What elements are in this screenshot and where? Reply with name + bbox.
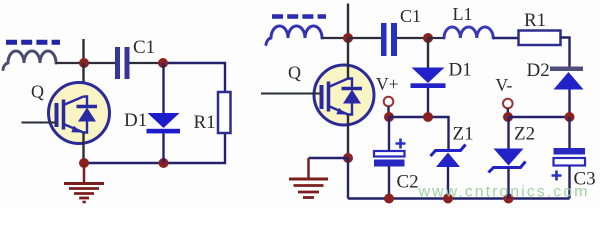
svg-text:D2: D2: [527, 60, 550, 81]
label C2: [397, 171, 419, 192]
wire C3 to rail: [568, 166, 570, 199]
wire gate of Q (left): [22, 122, 57, 124]
svg-text:D1: D1: [449, 59, 472, 80]
diode D1 (left): [147, 113, 181, 133]
svg-text:R1: R1: [524, 10, 546, 31]
label Z1: [453, 124, 474, 145]
wire bottom rail (right circuit): [348, 197, 570, 199]
label Z2: [514, 124, 535, 145]
capacitor C3: [552, 148, 586, 181]
svg-text:Q: Q: [31, 82, 44, 102]
wire V- terminal to node N: [507, 108, 509, 117]
ground (left): [64, 163, 104, 202]
label V+: [376, 74, 399, 94]
label C3: [574, 168, 596, 189]
wire bottom rail (left circuit): [84, 133, 225, 163]
transistor Q (IGBT, left): [49, 83, 110, 144]
node C junction dot: [79, 158, 89, 168]
node B junction dot: [158, 58, 168, 68]
node H junction dot: [565, 112, 575, 122]
node A junction dot: [79, 58, 89, 68]
wire emitter of Q down to node G: [347, 115, 349, 159]
terminal V+: [384, 97, 394, 107]
inductor (right input coil): [266, 26, 322, 45]
wire cathode of D1 to node J: [427, 88, 429, 117]
wire V+ terminal to node I: [387, 106, 389, 117]
svg-text:www.cntronics.com: www.cntronics.com: [418, 184, 590, 201]
wire Z2 anode to rail: [507, 168, 509, 199]
svg-text:R1: R1: [194, 112, 216, 133]
wire C2 to rail: [388, 167, 390, 199]
label R1 (left): [194, 112, 216, 133]
wire node N to node H: [508, 116, 570, 118]
label L1: [453, 4, 473, 24]
wire gate of Q (right): [261, 93, 322, 95]
wire C1 to node F: [397, 37, 428, 39]
wire node I down to C2: [388, 117, 390, 151]
wire inductor to node E: [322, 37, 348, 39]
node K junction dot (C2 at rail): [384, 194, 394, 204]
label C1 (right): [400, 6, 421, 26]
diode D2: [550, 67, 584, 90]
watermark: [418, 184, 590, 201]
wire node H down to C3: [568, 117, 570, 148]
capacitor C2: [374, 139, 406, 167]
wire node N down to Z2: [507, 117, 509, 149]
inductor L (left input coil): [3, 51, 56, 70]
inductor L1: [444, 27, 493, 38]
wire inductor to node A: [56, 62, 84, 64]
wire node A to capacitor C1: [84, 62, 115, 64]
svg-text:Z2: Z2: [514, 124, 535, 145]
wire emitter of Q down to node C: [82, 133, 84, 164]
resistor R1 (left): [218, 92, 231, 133]
svg-text:Q: Q: [288, 63, 301, 83]
node M junction dot (Z2 at rail): [504, 194, 514, 204]
wire stub above node A: [82, 39, 84, 63]
capacitor C1 (right): [381, 23, 397, 56]
label R1 (right): [524, 10, 546, 31]
label D2: [527, 60, 550, 81]
node L junction dot (Z1 at rail): [443, 194, 453, 204]
wire anode of D1 (left): [162, 63, 164, 113]
wire C1 to node B: [130, 62, 164, 64]
capacitor C1 (left): [115, 47, 130, 79]
zener Z1: [431, 145, 466, 168]
svg-text:D1: D1: [124, 110, 147, 131]
node I junction dot: [384, 112, 394, 122]
svg-text:Z1: Z1: [453, 124, 474, 145]
node D junction dot: [159, 158, 169, 168]
wire D2 anode down to node H: [568, 90, 570, 118]
label C1 (left): [133, 37, 155, 58]
wire Z1 anode to rail: [447, 167, 449, 199]
svg-text:V+: V+: [376, 74, 399, 94]
svg-text:C2: C2: [397, 171, 419, 192]
label Q (left): [31, 82, 44, 102]
terminal V-: [503, 99, 513, 109]
label Q (right): [288, 63, 301, 83]
svg-text:V-: V-: [496, 75, 513, 95]
wire node G down to bottom rail: [347, 158, 349, 199]
wire collector of Q1: [82, 63, 84, 97]
node E junction dot: [343, 33, 353, 43]
wire cathode of D1 to rail: [162, 133, 164, 163]
inductor core dashed line (left): [6, 40, 60, 45]
wire node B right and down to R1: [163, 63, 225, 92]
inductor core dashed line (right): [272, 14, 326, 19]
diode D1 (right): [411, 68, 446, 89]
label D1 (right): [449, 59, 472, 80]
wire node F to inductor L1: [428, 37, 444, 39]
label D1 (left): [124, 110, 147, 131]
svg-text:C1: C1: [400, 6, 421, 26]
node G junction dot: [343, 153, 353, 163]
zener Z2: [489, 149, 526, 173]
svg-text:L1: L1: [453, 4, 473, 24]
wire node G to ground (right): [309, 157, 349, 159]
wire stub above node E: [347, 4, 349, 39]
wire node I to Z1: [389, 117, 449, 151]
wire L1 to R1 (right): [493, 37, 518, 39]
svg-text:C1: C1: [133, 37, 155, 58]
ground (right): [289, 158, 328, 198]
wire node E to capacitor C1 (right): [348, 37, 381, 39]
node J junction dot: [423, 112, 433, 122]
wire anode of D1 (right): [427, 38, 429, 68]
node F junction dot: [423, 33, 433, 43]
node N junction dot: [503, 112, 513, 122]
resistor R1 (right): [519, 31, 561, 46]
transistor Q (IGBT, right): [314, 65, 374, 125]
label V-: [496, 75, 513, 95]
wire collector of Q (right): [347, 38, 349, 79]
wire R1 to D2 cathode: [561, 38, 570, 67]
